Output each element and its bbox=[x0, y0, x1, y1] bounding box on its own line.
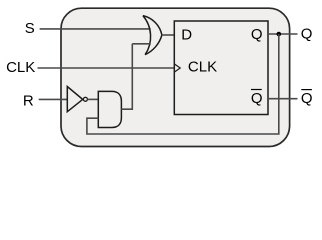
label Qbar output bbox=[301, 90, 313, 107]
svg-text:R: R bbox=[23, 93, 34, 110]
pin label Qbar bbox=[251, 90, 263, 107]
svg-text:D: D bbox=[181, 27, 192, 44]
AND gate G3 bbox=[98, 91, 121, 127]
wire G2 to G3 bbox=[87, 98, 98, 100]
svg-text:CLK: CLK bbox=[188, 58, 217, 75]
wire G1 output to D bbox=[162, 34, 174, 36]
svg-text:Q: Q bbox=[251, 26, 263, 43]
svg-text:Q: Q bbox=[301, 25, 313, 42]
wire Qbar output bbox=[268, 98, 298, 100]
wire Q output bbox=[268, 33, 298, 35]
IC body bbox=[61, 8, 290, 146]
wire G1 lower input bbox=[132, 43, 151, 45]
flip-flop U1 body bbox=[174, 21, 268, 115]
wire R input bbox=[39, 98, 68, 100]
wire feedback bbox=[87, 34, 279, 134]
svg-text:S: S bbox=[25, 20, 35, 37]
wire CLK input bbox=[38, 67, 175, 69]
svg-text:Q: Q bbox=[251, 90, 263, 107]
inverter G2 bbox=[67, 87, 87, 112]
wire S input bbox=[40, 28, 151, 30]
svg-text:Q: Q bbox=[301, 90, 313, 107]
wire G3 output to G1 input bbox=[121, 44, 132, 109]
junction dot bbox=[277, 32, 282, 37]
svg-text:CLK: CLK bbox=[6, 59, 35, 76]
pin clock chevron bbox=[174, 64, 180, 72]
OR gate G1 bbox=[143, 16, 162, 55]
